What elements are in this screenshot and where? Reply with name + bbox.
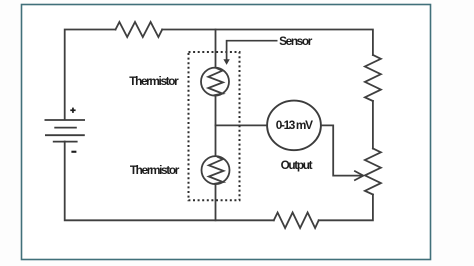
thermistor RT1 (top) (201, 68, 229, 96)
wire: R2 to potentiometer (372, 101, 374, 149)
battery - label (71, 151, 76, 153)
wire top-left: battery + to top resistor (65, 30, 116, 120)
svg-text:Output: Output (281, 158, 313, 172)
svg-text:Sensor: Sensor (279, 34, 313, 48)
wire: meter to potentiometer wiper (321, 125, 363, 175)
wire top: resistor to right corner (162, 30, 373, 56)
resistor R1 (top) (116, 22, 163, 37)
thermistor RT2 (bottom) (202, 156, 230, 184)
wire: thermistor branch top (215, 30, 217, 68)
svg-text:Thermistor: Thermistor (130, 163, 180, 177)
wire: potentiometer to bottom corner (319, 195, 373, 221)
sensor arrowhead (223, 59, 229, 65)
wire bottom: resistor to battery - (65, 142, 274, 221)
potentiometer wiper arrowhead (355, 171, 364, 180)
meter U1 (0-13 mV output) (267, 101, 321, 151)
potentiometer R3 (365, 149, 381, 195)
sensor pointer line (227, 41, 278, 61)
dashed box around thermistors (189, 52, 240, 200)
resistor R4 (bottom) (274, 213, 319, 229)
resistor R2 (right) (365, 55, 381, 101)
battery B1 (45, 120, 86, 142)
battery + label (70, 108, 75, 113)
wire: junction to meter (216, 124, 268, 126)
wire: thermistor branch bottom (215, 184, 217, 220)
svg-text:Thermistor: Thermistor (129, 74, 179, 88)
wire: between thermistors (215, 96, 217, 157)
svg-text:0-13 mV: 0-13 mV (276, 118, 313, 132)
